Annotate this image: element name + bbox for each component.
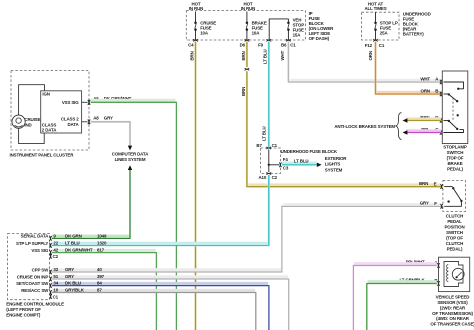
svg-text:40: 40 [97, 267, 102, 272]
brace [396, 113, 402, 140]
svg-text:LINES SYSTEM: LINES SYSTEM [115, 157, 146, 162]
svg-text:10A: 10A [252, 30, 261, 35]
wire DK GRN/WHT from cluster VSS SIG down to bottom [91, 99, 176, 102]
connector C1 mark [49, 294, 51, 299]
svg-text:LIGHTS: LIGHTS [325, 162, 341, 167]
pin A mark [437, 263, 439, 268]
wire BRN to anti-lock brakes system [407, 117, 442, 120]
svg-text:(TOP OF: (TOP OF [446, 236, 463, 241]
svg-text:F9: F9 [258, 43, 264, 48]
cruise indicator lamp [12, 115, 25, 128]
svg-text:RES/ACC SW: RES/ACC SW [21, 288, 49, 293]
VSS connector outline [444, 262, 463, 287]
svg-text:EXTERIOR: EXTERIOR [325, 156, 347, 161]
pin A6 mark [88, 100, 90, 105]
svg-text:D6: D6 [240, 43, 246, 48]
wire GRY from cluster class2 to computer data lines [91, 122, 130, 146]
fuse VEH STOP FUSE 15A [287, 21, 290, 24]
connector mark F12 C1 [373, 39, 378, 41]
svg-text:BRN: BRN [241, 87, 246, 96]
wire stub to stop lp fuse [375, 12, 377, 23]
internal wire [268, 150, 270, 173]
wire WHT from B6 down and right to stoplamp switch pin A [290, 79, 441, 82]
switch arm clutch [444, 186, 452, 188]
svg-text:CLUTCH: CLUTCH [446, 214, 463, 219]
svg-text:SWITCH: SWITCH [446, 230, 463, 235]
svg-text:LT BLU: LT BLU [262, 126, 267, 141]
arrow to ABS (BRN) [403, 118, 408, 122]
svg-text:BRN: BRN [419, 181, 428, 186]
arrow to exterior lights [317, 163, 322, 167]
svg-text:(4WD: ON REAR: (4WD: ON REAR [436, 316, 470, 321]
svg-text:CLASS 2: CLASS 2 [61, 117, 79, 122]
wire LT BLU band pin 22 [52, 242, 268, 245]
pin B7 C1 mark [267, 147, 272, 149]
pin E mark [440, 184, 442, 189]
svg-text:22: 22 [53, 240, 58, 245]
IP fuse block (dashed box) [186, 11, 305, 40]
VSS pickup coil [447, 265, 449, 282]
svg-text:C1: C1 [272, 143, 278, 148]
svg-text:10: 10 [53, 288, 58, 293]
svg-text:1320: 1320 [97, 240, 107, 245]
wire BRN from splice down to clutch switch row [248, 183, 441, 186]
underhood fuse block (dashed box) [362, 12, 399, 40]
underhood fuse block small (dashed box) [261, 148, 281, 174]
svg-text:817: 817 [97, 248, 105, 253]
svg-text:GRY/BLK: GRY/BLK [65, 288, 85, 293]
connector marks at IP fuse block bottom [193, 39, 198, 41]
wire DK GRN serial data from ECM up to computer data lines [52, 170, 130, 238]
svg-text:WHT: WHT [280, 50, 285, 60]
wire ORN from F12 down and right to stoplamp switch pin B [377, 91, 441, 94]
svg-text:LT BLU: LT BLU [294, 158, 309, 163]
pin B mark [440, 92, 442, 97]
wire DK GRN/WHT 817 from ECM pin 42 down to bottom [52, 249, 156, 252]
instrument panel cluster (dashed box) [11, 71, 89, 151]
svg-text:DATA: DATA [67, 122, 79, 127]
fuse BRAKE FUSE 10A [246, 21, 249, 24]
wire lamp to IGN [19, 85, 45, 115]
svg-text:ALL TIMES: ALL TIMES [364, 6, 386, 11]
svg-text:GRY: GRY [104, 116, 113, 121]
svg-text:OF DASH): OF DASH) [309, 36, 330, 41]
svg-text:SYSTEM: SYSTEM [325, 167, 343, 172]
svg-text:POSITION: POSITION [444, 225, 464, 230]
svg-text:C2: C2 [272, 175, 278, 180]
svg-text:A8: A8 [93, 116, 99, 121]
contact dot [457, 114, 459, 116]
svg-text:ENGINE CONTROL MODULE: ENGINE CONTROL MODULE [6, 301, 64, 306]
engine control module (dashed box) [8, 234, 50, 300]
wire LT BLU from F9 down to underhood fuse block [268, 42, 270, 147]
switch contact from pin C [444, 130, 464, 133]
svg-text:SERIAL DATA: SERIAL DATA [21, 234, 49, 239]
svg-text:LT BLU: LT BLU [65, 240, 80, 245]
svg-text:2 DATA: 2 DATA [42, 128, 57, 133]
switch arm pin B [444, 93, 449, 95]
svg-text:BRN: BRN [189, 51, 194, 60]
svg-text:STOPLAMP: STOPLAMP [443, 145, 467, 150]
pin F4 C3 mark [279, 163, 281, 168]
svg-text:OF TRANSFER CASE): OF TRANSFER CASE) [430, 322, 474, 327]
svg-text:BRN: BRN [241, 51, 246, 60]
inline splice on BRN wire [245, 68, 250, 70]
arrow down to computer data lines system [128, 146, 132, 151]
svg-text:B: B [435, 89, 438, 94]
svg-text:C1: C1 [53, 294, 59, 299]
svg-text:87: 87 [97, 288, 102, 293]
wire PPL to anti-lock brakes system [407, 129, 442, 132]
wire GRY/BLK 87 from ECM pin 10 down to bottom [52, 289, 255, 292]
svg-text:PEDAL): PEDAL) [447, 247, 463, 252]
svg-text:34: 34 [53, 281, 58, 286]
wire BRN from D6 (brake fuse) down [246, 42, 248, 68]
connector C2 mark [49, 254, 51, 259]
svg-text:A10: A10 [258, 175, 266, 180]
wire lamp to class 2 data driver [19, 128, 45, 143]
svg-text:BRAKE: BRAKE [447, 161, 462, 166]
vehicle speed sensor box [439, 257, 470, 291]
pin A6 connector mark overlay [88, 100, 90, 105]
svg-text:UNDERHOOD FUSE BLOCK: UNDERHOOD FUSE BLOCK [281, 149, 338, 154]
svg-text:B7: B7 [256, 143, 262, 148]
svg-text:LT BLU: LT BLU [263, 49, 268, 64]
svg-text:10A: 10A [200, 30, 209, 35]
svg-text:F4: F4 [283, 157, 289, 162]
svg-text:GRY: GRY [65, 274, 74, 279]
wire hot-in-run stub to brake fuse [246, 12, 248, 23]
switch arm pin D [444, 120, 449, 122]
svg-text:1049: 1049 [97, 233, 107, 238]
svg-text:GRY: GRY [420, 201, 429, 206]
svg-text:C1: C1 [379, 43, 385, 48]
svg-text:PEDAL): PEDAL) [447, 167, 463, 172]
svg-text:GRY: GRY [65, 267, 74, 272]
mechanical link (dashed) [452, 98, 454, 121]
svg-text:F12: F12 [365, 43, 373, 48]
svg-text:IND: IND [24, 122, 32, 127]
svg-text:ORN: ORN [368, 51, 373, 60]
svg-text:VSS SIG: VSS SIG [31, 248, 48, 253]
svg-text:CLUTCH: CLUTCH [446, 241, 463, 246]
svg-text:DK GRN: DK GRN [65, 233, 82, 238]
svg-text:IN RUN: IN RUN [241, 6, 255, 11]
arrow up to computer data lines system [128, 165, 132, 170]
pin A8 mark [88, 120, 90, 125]
wire hot-in-run stub to cruise fuse [195, 12, 197, 23]
svg-text:WHT: WHT [420, 76, 430, 81]
svg-text:C3: C3 [283, 166, 289, 171]
pin C mark [440, 130, 442, 135]
svg-text:B6: B6 [281, 43, 287, 48]
svg-text:C2: C2 [53, 254, 59, 259]
svg-text:32: 32 [53, 267, 58, 272]
svg-text:C4: C4 [188, 43, 194, 48]
svg-text:25A: 25A [380, 30, 389, 35]
wire DK GRN band pin 9 [52, 235, 129, 238]
svg-text:DK GRN/WHT: DK GRN/WHT [65, 248, 93, 253]
wire link veh stop fuse to F9 feed [269, 19, 288, 40]
svg-text:SET/COAST SW: SET/COAST SW [16, 281, 49, 286]
svg-text:COMPUTER DATA: COMPUTER DATA [112, 151, 149, 156]
svg-text:ANTI-LOCK BRAKES SYSTEM: ANTI-LOCK BRAKES SYSTEM [334, 124, 395, 129]
svg-text:VEHICLE SPEED: VEHICLE SPEED [436, 294, 471, 299]
svg-text:INSTRUMENT PANEL CLUSTER: INSTRUMENT PANEL CLUSTER [10, 153, 75, 158]
wire LT GRN/BLK from VSS pin B down to bottom [368, 280, 437, 283]
svg-text:C1: C1 [290, 43, 296, 48]
svg-text:CRUISE ON INP: CRUISE ON INP [17, 274, 49, 279]
svg-text:VSS SIG: VSS SIG [62, 100, 79, 105]
clutch pedal position switch (dashed box) [443, 181, 466, 212]
svg-text:SWITCH: SWITCH [447, 150, 464, 155]
svg-text:CPP SW: CPP SW [32, 267, 50, 272]
svg-text:ORN: ORN [421, 88, 430, 93]
svg-text:ENGINE COMPT): ENGINE COMPT) [6, 313, 41, 318]
wire LT BLU to exterior lights system [282, 162, 317, 165]
svg-text:E: E [434, 181, 437, 186]
fuse STOP LP FUSE 25A [374, 22, 377, 25]
svg-text:DK BLU: DK BLU [65, 281, 81, 286]
stoplamp switch box [442, 71, 468, 144]
svg-text:42: 42 [53, 248, 58, 253]
svg-text:84: 84 [97, 281, 102, 286]
pin F mark [440, 204, 442, 209]
cluster IC box [41, 91, 82, 133]
wire DK BLU 84 from ECM pin 34 down to bottom [52, 282, 268, 285]
pin D mark [440, 118, 442, 123]
svg-text:SENSOR (VSS): SENSOR (VSS) [437, 300, 468, 305]
svg-text:(2WD: REAR: (2WD: REAR [440, 305, 466, 310]
wire BRN from C4 (cruise fuse) down left side [194, 42, 196, 330]
svg-text:STP LP SUPPLY: STP LP SUPPLY [16, 241, 48, 246]
svg-text:(LEFT FRONT OF: (LEFT FRONT OF [6, 307, 41, 312]
arrow to ABS (PPL) [403, 130, 408, 134]
pin A8 connector mark overlay [88, 120, 90, 125]
svg-text:15A: 15A [293, 33, 302, 38]
svg-text:397: 397 [97, 274, 105, 279]
svg-text:OF TRANSMISSION): OF TRANSMISSION) [432, 311, 473, 316]
svg-text:IN RUN: IN RUN [189, 6, 203, 11]
pin A mark [440, 80, 442, 85]
switch contact from pin A [444, 82, 464, 89]
svg-text:IGN: IGN [42, 92, 49, 97]
svg-text:PEDAL: PEDAL [447, 219, 462, 224]
wire LT BLU from A10 down to ECM stp lp supply [52, 175, 269, 245]
wire PPL/WHT from VSS pin A down to bottom [354, 262, 437, 265]
svg-text:(TOP OF: (TOP OF [447, 156, 464, 161]
pin B mark [437, 281, 439, 286]
svg-text:BATTERY): BATTERY) [403, 32, 424, 37]
wire GRY 397 from ECM pin 51 down to bottom [52, 275, 288, 278]
pin A10 C2 mark [267, 172, 272, 174]
wire GRY 40 from ECM pin 32 to clutch pedal position switch [52, 268, 281, 271]
fuse CRUISE FUSE 10A [194, 21, 197, 24]
VSS tone wheel [452, 268, 464, 280]
svg-text:51: 51 [53, 274, 58, 279]
svg-text:F: F [434, 201, 437, 206]
